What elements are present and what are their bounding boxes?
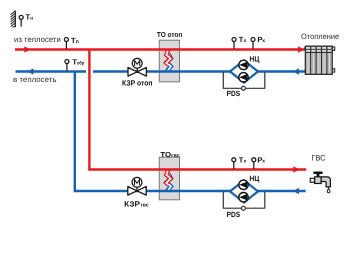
svg-text:Отопление: Отопление	[301, 32, 339, 41]
svg-text:х: х	[262, 39, 265, 44]
svg-text:в теплосеть: в теплосеть	[13, 75, 56, 84]
svg-text:ТО: ТО	[160, 150, 171, 159]
svg-text:КЗР отоп: КЗР отоп	[122, 79, 153, 88]
svg-text:п: п	[76, 40, 79, 45]
svg-text:из теплосети: из теплосети	[14, 35, 61, 44]
svg-text:НЦ: НЦ	[249, 174, 259, 183]
svg-text:PDS: PDS	[227, 210, 241, 219]
svg-text:обр: обр	[77, 61, 84, 67]
svg-text:х: х	[262, 159, 265, 164]
svg-text:гвс: гвс	[171, 153, 180, 159]
svg-text:КЗР: КЗР	[124, 199, 140, 208]
svg-text:н: н	[30, 17, 33, 22]
svg-text:ГВС: ГВС	[311, 153, 326, 162]
svg-text:х: х	[244, 39, 247, 44]
svg-text:НЦ: НЦ	[249, 55, 259, 64]
svg-text:PDS: PDS	[227, 89, 241, 98]
svg-text:гвс: гвс	[141, 202, 149, 208]
svg-text:ТО отоп: ТО отоп	[157, 30, 182, 39]
svg-text:х: х	[244, 159, 247, 164]
